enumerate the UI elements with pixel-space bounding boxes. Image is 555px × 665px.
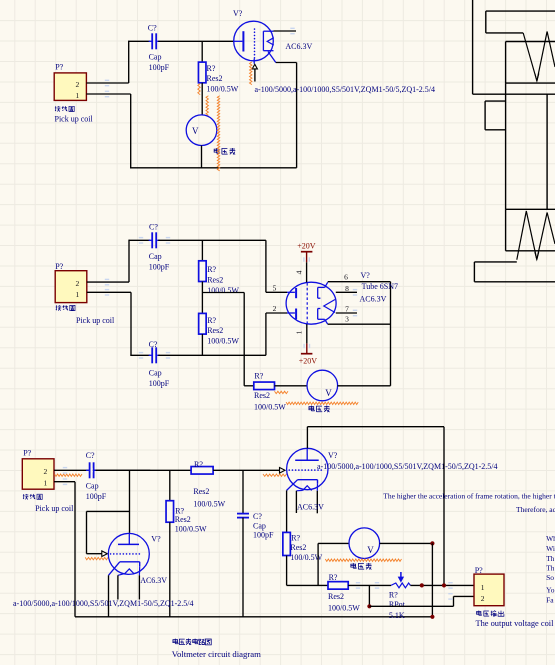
wire top rail junction down to R2 (201, 240, 203, 261)
svg-text:Res2: Res2 (207, 74, 223, 83)
capacitor C3 (151, 347, 153, 363)
V4 right heater pin (316, 484, 318, 491)
wire to V2 pin 2 (266, 312, 287, 314)
svg-text:Pick up coil: Pick up coil (55, 115, 94, 124)
svg-text:P?: P? (55, 63, 63, 72)
wire right vertical down to tube pin5 (265, 240, 267, 292)
frame drawing left boundary (472, 0, 474, 94)
V1 grid dotted line (254, 29, 256, 58)
wire R4 to voltmeter M2 (275, 385, 308, 387)
wire M3 right to junction (380, 542, 433, 544)
junction dot output node (442, 583, 446, 587)
wire M1 to bottom rail (201, 146, 203, 168)
svg-text:Voltmeter circuit diagram: Voltmeter circuit diagram (172, 649, 261, 659)
V3 left heater pin (118, 574, 125, 576)
wire junction down to diode-connected tube V3 (129, 470, 131, 533)
V2 pin 7 wire dangling (336, 312, 357, 314)
error squiggle below R1 (198, 84, 200, 95)
wire top rail to capacitor C1 (129, 40, 151, 42)
svg-text:R?: R? (329, 573, 338, 582)
svg-text:100/0.5W: 100/0.5W (207, 336, 239, 345)
svg-text:5.1K: 5.1K (389, 611, 405, 620)
svg-text:100/0.5W: 100/0.5W (207, 286, 239, 295)
hotspot markers bottom circuit (63, 467, 67, 474)
svg-text:AC6.3V: AC6.3V (285, 42, 312, 51)
svg-text:R?: R? (175, 507, 184, 516)
title 电压表电路图 (173, 639, 178, 644)
M3 label 电压表 (351, 563, 356, 568)
svg-text:2: 2 (273, 304, 277, 313)
wire C4 to resistor R6 (96, 469, 192, 471)
error squiggle under P3 pin2 wire (55, 474, 83, 476)
tube V4 envelope circle (287, 448, 328, 489)
svg-text:100/0.5W: 100/0.5W (328, 604, 360, 613)
svg-text:P?: P? (23, 449, 31, 458)
wire V1 lower-right pin to right vertical (276, 62, 297, 64)
svg-text:2: 2 (481, 594, 485, 603)
wire down to bottom rail (130, 94, 132, 168)
wire R1 to voltmeter M1 (201, 83, 203, 115)
frame drawing lower shelf 2 (506, 208, 555, 210)
svg-text:Res2: Res2 (175, 515, 191, 524)
svg-text:R?: R? (194, 460, 203, 469)
svg-text:Yo: Yo (546, 586, 555, 595)
resistor R1 (198, 62, 206, 83)
voltmeter M2 circle (307, 370, 338, 401)
V1 bottom pin stub (253, 59, 255, 64)
error squiggle under V4 grid wire (263, 474, 287, 476)
svg-text:4: 4 (295, 270, 304, 274)
connector P1 pick-up coil box (54, 73, 86, 101)
wire V3 grid lead (87, 553, 102, 555)
V3 grid arrow (102, 551, 108, 557)
svg-text:P?: P? (475, 566, 483, 575)
wire right vertical down to bottom rail (296, 63, 298, 168)
svg-text:5: 5 (273, 283, 277, 292)
wire left vertical down to bottom rail (74, 482, 76, 617)
svg-text:Th: Th (546, 564, 555, 573)
svg-text:1: 1 (481, 583, 485, 592)
resistor R6 horizontal (191, 467, 213, 475)
wire from V1 bottom pin dangling (254, 69, 256, 82)
frame drawing top bracket (486, 10, 555, 12)
wire left vertical up to top rail (128, 41, 130, 83)
svg-text:100pF: 100pF (149, 63, 170, 72)
wire C2 to right corner (158, 239, 266, 241)
svg-text:Th: Th (546, 554, 555, 563)
svg-text:R?: R? (207, 316, 216, 325)
svg-text:Pick up coil: Pick up coil (35, 504, 74, 513)
wire to resistor R4 (244, 385, 254, 387)
wire tap to P4 pin2 return (369, 605, 453, 607)
wire junction down through resistor R5 (169, 470, 171, 501)
connector P4 output box (474, 574, 504, 606)
wire junction down to capacitor C5 (242, 470, 244, 513)
V3 cathode line with end hook (120, 561, 140, 563)
wire R6 to tube V4 grid (213, 469, 279, 471)
svg-text:V?: V? (328, 451, 338, 460)
svg-text:AC6.3V: AC6.3V (360, 295, 387, 304)
wire C3 to right corner (158, 354, 266, 356)
V4 grid arrow (280, 468, 286, 474)
V2 lower anode bracket (317, 309, 319, 320)
svg-text:100/0.5W: 100/0.5W (175, 524, 207, 533)
resistor R3 (199, 313, 207, 334)
V3 filament chevron (125, 569, 134, 574)
wire V2 bottom pin 1 to +20V (306, 324, 308, 343)
V1 cathode diagonal to lower-right pin (268, 52, 276, 63)
wire V4 right leg voltmeter branch (317, 543, 319, 585)
wire M2 to right vertical (338, 385, 391, 387)
V2 filament arrow (324, 300, 335, 313)
svg-text:1: 1 (295, 330, 304, 334)
svg-text:V: V (192, 126, 199, 136)
svg-text:C?: C? (253, 512, 262, 521)
svg-text:6: 6 (344, 272, 348, 281)
P3 label 按线圈 (23, 494, 29, 500)
junction dot meter-right (430, 541, 434, 545)
svg-text:AC6.3V: AC6.3V (140, 576, 167, 585)
wire right vertical up to tube pin2 (265, 313, 267, 355)
wire top junction down to resistor R1 (201, 41, 203, 62)
svg-text:C?: C? (149, 340, 158, 349)
wire down to middle bottom rail (130, 292, 132, 355)
svg-text:Therefore, acc: Therefore, acc (516, 505, 555, 514)
frame drawing lower shelf (473, 93, 555, 95)
svg-text:C?: C? (148, 23, 157, 32)
V2 pin 8 wire dangling (336, 291, 357, 293)
wire anode loop down to output node (443, 427, 445, 586)
wire C5 to bottom rail (242, 518, 244, 617)
P2 label 按线圈 (56, 305, 62, 311)
svg-text:Cap: Cap (149, 252, 162, 261)
svg-text:V?: V? (361, 271, 371, 280)
V4 grid dotted line (289, 469, 324, 471)
svg-text:Res2: Res2 (254, 391, 270, 400)
error squiggle right of wire (206, 96, 208, 116)
svg-text:R?: R? (254, 372, 263, 381)
wire R8 to potentiometer R9 (348, 584, 391, 586)
svg-text:+20V: +20V (297, 242, 316, 251)
V2 upper anode bracket (317, 287, 319, 298)
svg-text:V: V (325, 388, 332, 398)
wire branch vertical down to meter row (243, 293, 245, 386)
svg-text:Cap: Cap (149, 368, 162, 377)
wire +20V to V2 top pin 4 (306, 262, 308, 282)
svg-text:100pF: 100pF (86, 492, 107, 501)
V4 filament chevron (303, 486, 312, 491)
wire R3 to bottom rail (201, 334, 203, 355)
frame drawing lower mass rectangle (505, 209, 507, 251)
junction dot tap corner (367, 604, 371, 608)
wire P3 pin1 right (54, 481, 75, 483)
M2 label 电压表 (309, 406, 314, 411)
voltmeter M1 circle (186, 115, 217, 146)
R9 wiper arrow (400, 572, 402, 578)
svg-text:Tube 6SN7: Tube 6SN7 (362, 282, 398, 291)
svg-text:Cap: Cap (253, 521, 266, 530)
svg-text:Pick up coil: Pick up coil (76, 316, 115, 325)
wire C1 to tube V1 (158, 40, 234, 42)
capacitor C5 vertical (237, 513, 249, 515)
svg-text:C?: C? (86, 451, 95, 460)
error squiggle above M3 label (325, 559, 401, 561)
wire R7 to bottom wire (286, 556, 288, 586)
wire R5 to bottom rail (169, 522, 171, 617)
svg-text:1: 1 (44, 478, 48, 487)
P4 label 电压输出 (477, 610, 482, 615)
wire middle top rail to capacitor C2 (129, 239, 150, 241)
svg-text:a-100/5000,a-100/1000,S5/501V,: a-100/5000,a-100/1000,S5/501V,ZQM1-50/5,… (317, 462, 498, 471)
wire tap down from bottom row (368, 585, 370, 606)
resistor R5 (166, 501, 174, 523)
tube V3 envelope circle (108, 533, 149, 574)
V4 anode bar (306, 449, 308, 461)
resistor R2 (199, 261, 207, 282)
capacitor C4 (89, 462, 91, 478)
resistor R7 (283, 532, 291, 555)
wire bottom rail (75, 616, 432, 618)
svg-text:Cap: Cap (149, 53, 162, 62)
wire R9 to output node (410, 584, 474, 586)
V1 no-ERC triangle marker (252, 64, 257, 69)
capacitor C2 (151, 232, 153, 248)
svg-text:Res2: Res2 (328, 592, 344, 601)
V4 left heater pin (296, 489, 302, 491)
frame drawing side tab rectangle (485, 100, 506, 102)
tube V1 envelope circle (234, 21, 274, 61)
wire branch to V3 grid loop (87, 510, 130, 512)
svg-text:100pF: 100pF (149, 262, 170, 271)
connector P2 pick-up coil box (55, 271, 87, 303)
svg-text:a-100/5000,a-100/1000,S5/501V,: a-100/5000,a-100/1000,S5/501V,ZQM1-50/5,… (13, 599, 194, 608)
V2 left cathode bars (287, 291, 295, 293)
node A branch wire to the right (202, 292, 244, 294)
potentiometer R9 RPot zigzag (391, 583, 410, 588)
svg-text:AC6.3V: AC6.3V (297, 502, 324, 511)
svg-text:RPot: RPot (389, 600, 406, 609)
svg-text:1: 1 (76, 290, 80, 299)
V3 cathode leg to resistor chain (109, 562, 120, 576)
svg-text:3: 3 (345, 315, 349, 324)
svg-text:Cap: Cap (86, 482, 99, 491)
V1 cathode arrow (267, 38, 274, 45)
M1 label 电压表 (214, 148, 219, 153)
V4 cathode leg to resistor R7 (287, 480, 298, 491)
hotspot markers middle circuit (105, 279, 109, 286)
svg-text:R?: R? (389, 590, 398, 599)
svg-text:8: 8 (345, 284, 349, 293)
wire junction down to bottom rail end (431, 543, 433, 616)
V1 cathode bracket (262, 31, 264, 51)
svg-text:2: 2 (44, 467, 48, 476)
svg-text:Wi: Wi (546, 544, 555, 553)
V2 pin 3 wire (328, 323, 391, 325)
tube V2 6SN7 envelope ellipse (286, 282, 336, 324)
wire middle bottom rail to capacitor C3 (130, 354, 150, 356)
wire right vertical up to pin6 rail (390, 282, 392, 386)
svg-text:100/0.5W: 100/0.5W (254, 402, 286, 411)
svg-text:R?: R? (291, 533, 300, 542)
svg-text:R?: R? (207, 265, 216, 274)
svg-text:V: V (367, 545, 374, 555)
frame drawing bottom plate (474, 261, 516, 263)
wire V4 anode up and over (306, 427, 308, 449)
svg-text:Res2: Res2 (290, 543, 306, 552)
svg-text:Res2: Res2 (207, 326, 223, 335)
svg-text:1: 1 (76, 91, 80, 100)
P1 label 按线圈 (55, 106, 61, 112)
svg-text:100pF: 100pF (149, 379, 170, 388)
wire V1 upper-right pin (274, 30, 297, 32)
voltmeter M3 circle (349, 528, 380, 559)
V1 anode lead and bar (234, 40, 242, 42)
junction dot bottom rail end (430, 615, 434, 619)
wire R2 to node A (201, 282, 203, 314)
svg-text:7: 7 (345, 304, 349, 313)
frame drawing vertical rails (505, 83, 507, 209)
error squiggle at V1 bottom pin (250, 62, 252, 85)
resistor R4 (254, 382, 275, 390)
wire P1 pin2 to top-left corner (86, 82, 128, 84)
wire bottom rail (130, 167, 297, 169)
wire up to middle top rail (128, 240, 130, 283)
connector P3 pick-up coil box (22, 459, 54, 489)
svg-text:C?: C? (149, 222, 158, 231)
resistor R8 horizontal (328, 582, 348, 590)
wire P3 pin2 to capacitor C4 (54, 469, 150, 471)
svg-text:a-100/5000,a-100/1000,S5/501V,: a-100/5000,a-100/1000,S5/501V,ZQM1-50/5,… (255, 85, 436, 94)
wire to V2 pin 5 (266, 291, 287, 293)
wire P2 pin1 right (87, 291, 131, 293)
wire bottom row to resistor R8 (287, 584, 328, 586)
svg-text:So: So (546, 573, 554, 582)
svg-text:100pF: 100pF (253, 531, 274, 540)
svg-text:100/0.5W: 100/0.5W (207, 84, 239, 93)
wire P2 pin2 right (87, 281, 129, 283)
svg-text:+20V: +20V (299, 356, 318, 365)
svg-text:2: 2 (76, 80, 80, 89)
svg-text:2: 2 (76, 279, 80, 288)
V3 anode bar (128, 533, 130, 545)
frame drawing upper spring (523, 32, 555, 82)
wire P1 pin1 right (86, 93, 130, 95)
frame drawing lower spring (517, 211, 555, 260)
svg-text:V?: V? (233, 9, 243, 18)
svg-text:V?: V? (151, 535, 161, 544)
error squiggle right of voltmeter M1 (217, 96, 219, 171)
svg-text:The output voltage coil of: The output voltage coil of (476, 619, 555, 628)
capacitor C1 (151, 33, 153, 49)
V3 grid dotted line (111, 553, 143, 555)
svg-text:The higher the acceleration of: The higher the acceleration of frame rot… (383, 492, 555, 501)
svg-text:Wh: Wh (546, 534, 555, 543)
junction dot pot-right (420, 583, 424, 587)
V3 right heater pin (138, 566, 140, 575)
V4 cathode line with end hook (298, 479, 318, 481)
error squiggle under M2 (286, 402, 358, 404)
svg-text:Res2: Res2 (207, 275, 223, 284)
V2 grid dashed line (306, 283, 308, 324)
svg-text:R?: R? (207, 64, 216, 73)
svg-text:100/0.5W: 100/0.5W (193, 499, 225, 508)
V2 pin 6 wire (328, 281, 391, 283)
hotspot markers top circuit (105, 80, 109, 87)
svg-text:P?: P? (55, 262, 63, 271)
svg-text:Fa: Fa (546, 596, 554, 605)
error squiggle R4 to M2 (275, 391, 289, 393)
error squiggle under V3 grid lead (85, 557, 108, 559)
svg-text:Res2: Res2 (193, 487, 209, 496)
frame drawing upper mass rectangle (506, 41, 555, 43)
